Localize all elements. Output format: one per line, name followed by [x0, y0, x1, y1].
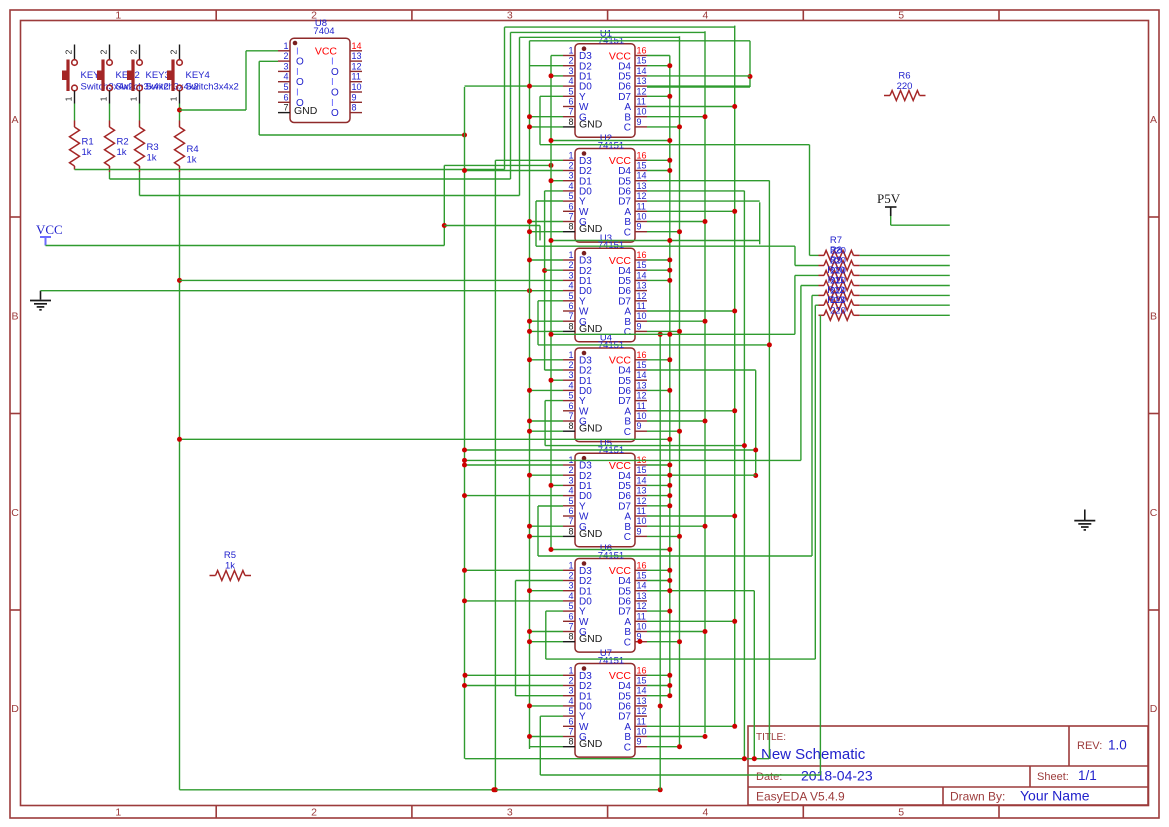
IC U5 pin 5 stub — [563, 505, 575, 507]
svg-text:R7: R7 — [830, 235, 842, 246]
junction U7 pin4 x529 — [527, 703, 532, 708]
wire U4 pin13 to VCC bus — [647, 389, 670, 391]
wire U3 pin14 to VCC bus — [647, 279, 670, 281]
wire U1 pin3 from bus x551 — [551, 75, 563, 77]
junction U1 pin8 x529 — [527, 124, 532, 129]
svg-text:8: 8 — [568, 117, 573, 127]
svg-text:9: 9 — [637, 222, 642, 232]
svg-text:11: 11 — [637, 301, 646, 311]
svg-text:TITLE:: TITLE: — [756, 732, 786, 743]
svg-text:7: 7 — [568, 516, 573, 526]
junction U5 pin13 VCC bus — [667, 493, 672, 498]
IC U7 74151 body — [575, 664, 635, 758]
junction U3 pin7 x529 — [527, 319, 532, 324]
wire U5 pin4 from bus x464 — [465, 495, 564, 497]
IC U7 pin 6 stub — [563, 725, 575, 727]
IC U8 pin 8 stub — [350, 112, 362, 114]
wire U6 pin15 to VCC bus — [647, 580, 670, 582]
svg-text:6: 6 — [568, 97, 573, 107]
junction U1 link x551 — [549, 138, 554, 143]
wire U1 pin1 from bus x551 — [551, 55, 563, 57]
svg-text:3: 3 — [568, 475, 573, 485]
ruler tick left A/B — [10, 216, 21, 218]
ruler tick top 4 — [802, 10, 804, 21]
svg-text:1k: 1k — [187, 155, 197, 166]
svg-text:13: 13 — [637, 486, 647, 496]
wire U5 under-chip link — [551, 549, 670, 551]
svg-text:12: 12 — [637, 706, 647, 716]
IC U5 pin 8 stub — [563, 535, 575, 537]
svg-text:R3: R3 — [147, 142, 159, 153]
junction U2 pin2 x464 — [462, 168, 467, 173]
resistor R10 body — [824, 281, 854, 291]
svg-text:7: 7 — [568, 411, 573, 421]
junction U6 pin15 VCC bus — [667, 578, 672, 583]
wire U2 D6 drop vertical x744 — [743, 191, 745, 759]
wire U3 Y vertical — [537, 301, 539, 345]
wire U6 pin2 from x515 — [516, 580, 564, 582]
svg-text:11: 11 — [637, 506, 646, 516]
switch KEY3 actuator button — [127, 71, 133, 81]
IC U5 pin 10 stub — [635, 525, 647, 527]
wire U6 pin14 to VCC bus — [647, 590, 670, 592]
svg-text:6: 6 — [568, 506, 573, 516]
resistor R6 body — [890, 91, 920, 101]
title block Sheet divider — [1029, 766, 1031, 787]
wire U7 Y vertical — [539, 716, 541, 775]
IC U3 pin 8 stub — [563, 330, 575, 332]
IC U8 7404 body — [290, 38, 350, 122]
IC U4 pin 4 stub — [563, 389, 575, 391]
svg-text:5: 5 — [898, 807, 904, 819]
junction U3 pin16 VCC bus — [667, 258, 672, 263]
svg-text:16: 16 — [637, 46, 647, 56]
svg-text:4: 4 — [568, 486, 573, 496]
IC U8 pin1 orientation dot — [293, 41, 298, 46]
wire KEY2 pin1 to R2 — [109, 104, 111, 121]
svg-text:Date:: Date: — [756, 771, 782, 783]
svg-text:15: 15 — [637, 676, 647, 686]
IC U4 pin 2 stub — [563, 369, 575, 371]
wire P5V to right — [891, 224, 950, 226]
wire U5 pin10 to net B — [647, 525, 705, 527]
IC U5 pin 12 stub — [635, 505, 647, 507]
wire U3 link to x795 — [551, 333, 795, 335]
title block row divider 2 — [748, 786, 1148, 788]
junction U3 pin15 VCC bus — [667, 268, 672, 273]
IC U6 pin 8 stub — [563, 641, 575, 643]
junction U7 pin13 at x660 — [658, 704, 663, 709]
wire U1 under-chip link — [551, 140, 670, 142]
svg-text:220: 220 — [830, 245, 846, 256]
svg-text:2: 2 — [568, 571, 573, 581]
junction U7 pin9 net C — [677, 744, 682, 749]
IC U6 pin 4 stub — [563, 600, 575, 602]
IC U8 pin 12 stub — [350, 70, 362, 72]
wire U5 Y horizontal — [538, 555, 812, 557]
svg-text:9: 9 — [637, 421, 642, 431]
wire U4 pin16 to VCC bus — [647, 359, 670, 361]
wire VCC flag to bus — [46, 245, 445, 247]
junction x756 branch 450 — [753, 448, 758, 453]
ruler tick bottom 3 — [607, 806, 609, 819]
svg-text:4: 4 — [568, 281, 573, 291]
wire U3 pin1 from ground bus — [530, 259, 564, 261]
svg-text:1: 1 — [568, 665, 573, 675]
wire U4 pin3 from bus x551 — [551, 379, 563, 381]
junction U7 pin14 VCC bus — [667, 693, 672, 698]
junction U6 pin11 net A — [732, 619, 737, 624]
resistor R8 left lead — [819, 265, 825, 267]
svg-text:9: 9 — [637, 737, 642, 747]
resistor R13 body — [824, 310, 854, 320]
svg-text:10: 10 — [637, 727, 647, 737]
switch KEY3 pin1 stub — [139, 91, 141, 104]
junction U4 pin4 x529 — [527, 388, 532, 393]
svg-text:6: 6 — [568, 716, 573, 726]
IC U6 pin 16 stub — [635, 569, 647, 571]
IC U7 pin 16 stub — [635, 674, 647, 676]
wire VCC top link horizontal — [444, 164, 551, 166]
ruler tick top 1 — [215, 10, 217, 21]
resistor R13 right lead — [854, 314, 860, 316]
ruler tick bottom 5 — [998, 806, 1000, 819]
svg-text:2: 2 — [568, 56, 573, 66]
IC U7 pin 5 stub — [563, 715, 575, 717]
svg-text:7: 7 — [568, 622, 573, 632]
svg-text:Drawn By:: Drawn By: — [950, 790, 1005, 804]
junction U7 pin10 net B — [703, 734, 708, 739]
wire U4 pin9 to net C — [647, 430, 680, 432]
wire U1 pin11 to net A — [647, 106, 735, 108]
svg-text:2: 2 — [311, 807, 317, 819]
IC U7 pin 13 stub — [635, 705, 647, 707]
svg-text:8: 8 — [568, 222, 573, 232]
resistor R11 left lead — [819, 294, 825, 296]
wire U6 Y horizontal — [546, 658, 816, 660]
svg-text:1k: 1k — [225, 561, 235, 572]
svg-text:13: 13 — [637, 696, 647, 706]
IC U2 pin1 orientation dot — [582, 151, 587, 156]
svg-text:11: 11 — [352, 72, 361, 82]
svg-text:74151: 74151 — [598, 141, 624, 152]
svg-text:1: 1 — [568, 350, 573, 360]
svg-text:2: 2 — [568, 360, 573, 370]
svg-text:6: 6 — [568, 301, 573, 311]
svg-text:12: 12 — [637, 291, 647, 301]
svg-text:GND: GND — [579, 423, 603, 435]
wire R11 input vertical x812 — [811, 295, 813, 556]
junction VCC P5V line — [442, 223, 447, 228]
svg-text:1: 1 — [568, 150, 573, 160]
wire U2 pin2 from bus x464 — [465, 170, 564, 172]
IC U1 74151 body — [575, 44, 635, 138]
IC U5 pin 16 stub — [635, 464, 647, 466]
ruler tick right B/C — [1149, 413, 1160, 415]
svg-text:8: 8 — [568, 737, 573, 747]
svg-text:Switch3x4x2: Switch3x4x2 — [186, 82, 239, 93]
svg-text:12: 12 — [637, 86, 647, 96]
wire U6 pin4 from bus x464 — [465, 600, 564, 602]
IC U3 pin 5 stub — [563, 300, 575, 302]
svg-text:R4: R4 — [187, 144, 199, 155]
svg-text:4: 4 — [568, 76, 573, 86]
wire U4 pin15 long to x756 — [647, 369, 756, 371]
wire R8 input — [795, 265, 819, 267]
junction U3 pin1 x529 — [527, 258, 532, 263]
IC U6 pin 12 stub — [635, 610, 647, 612]
resistor R7 right lead — [854, 254, 860, 256]
wire U6 pin12 to VCC bus — [647, 610, 670, 612]
resistor R3 bottom lead — [139, 166, 141, 172]
svg-text:KEY4: KEY4 — [186, 70, 210, 81]
wire U5 pin14 to VCC bus — [647, 484, 670, 486]
svg-text:220: 220 — [830, 305, 846, 316]
IC U8 pin 10 stub — [350, 91, 362, 93]
svg-text:GND: GND — [579, 738, 603, 750]
svg-text:1: 1 — [99, 96, 109, 101]
junction U3 pin14 VCC bus — [667, 278, 672, 283]
svg-text:14: 14 — [637, 171, 647, 181]
wire U6 pin3 from ground bus — [530, 590, 564, 592]
wire U5 pin15 long to x756 — [647, 474, 756, 476]
wire U4 under-chip link from key4 net — [180, 438, 670, 440]
svg-text:A: A — [1150, 114, 1157, 126]
svg-text:GND: GND — [579, 118, 603, 130]
IC U6 pin 7 stub — [563, 631, 575, 633]
IC U4 pin 11 stub — [635, 410, 647, 412]
junction U1 pin3 x551 — [549, 73, 554, 78]
switch KEY2 actuator button — [97, 71, 103, 81]
wire U2 pin11 to net A — [647, 210, 735, 212]
IC U8 pin 3 stub — [278, 70, 290, 72]
wire R13 input vertical x820 — [819, 315, 821, 775]
switch KEY2 actuator bar — [101, 60, 104, 92]
wire R10 input — [801, 285, 819, 287]
junction U5 link x551 — [549, 547, 554, 552]
wire U6 Y vertical — [545, 611, 547, 659]
wire net B vertical right — [704, 31, 706, 733]
wire net A top bus — [505, 26, 735, 28]
wire U6 pin10 to net B — [647, 631, 705, 633]
wire U7 pin8 from ground bus — [530, 746, 564, 748]
IC U1 pin 8 stub — [563, 126, 575, 128]
junction U4 pin13 VCC bus — [667, 388, 672, 393]
IC U8 pin 4 stub — [278, 81, 290, 83]
IC U7 pin 9 stub — [635, 746, 647, 748]
wire U3 pin16 to VCC bus — [647, 259, 670, 261]
IC U2 pin 13 stub — [635, 190, 647, 192]
wire U4 pin7 from ground bus — [530, 420, 564, 422]
svg-text:VCC: VCC — [36, 222, 63, 237]
junction U5 pin9 net C — [677, 534, 682, 539]
svg-text:REV:: REV: — [1077, 740, 1102, 752]
wire U5 Y vertical — [537, 506, 539, 556]
IC U1 pin 13 stub — [635, 85, 647, 87]
wire net B top bus — [511, 31, 706, 33]
switch KEY1 top contact — [72, 60, 78, 66]
junction x545 at U3 pin2 — [542, 268, 547, 273]
svg-text:1k: 1k — [82, 147, 92, 158]
svg-text:1: 1 — [129, 96, 139, 101]
junction U7 pin2 x464 — [462, 683, 467, 688]
ruler tick top 5 — [998, 10, 1000, 21]
switch KEY2 pin1 stub — [109, 91, 111, 104]
power flag P5V stem — [890, 207, 892, 216]
switch KEY1 actuator bar — [66, 60, 69, 92]
resistor R3 body — [135, 127, 145, 166]
IC U3 pin 7 stub — [563, 320, 575, 322]
svg-text:7: 7 — [568, 107, 573, 117]
switch KEY4 pin2 stub — [179, 45, 181, 60]
svg-text:14: 14 — [637, 370, 647, 380]
wire U4 pin1 from ground bus — [530, 359, 564, 361]
IC U4 pin 1 stub — [563, 359, 575, 361]
switch KEY4 actuator button — [167, 71, 173, 81]
wire R9 input — [795, 274, 819, 276]
svg-text:1: 1 — [568, 46, 573, 56]
switch KEY1 pin1 stub — [74, 91, 76, 104]
wire U1 Y horizontal — [540, 144, 810, 146]
svg-text:5: 5 — [568, 706, 573, 716]
wire R7 input — [810, 254, 819, 256]
wire x515 drop U6 pin2 to U7 pin3 — [515, 581, 517, 697]
IC U1 pin 7 stub — [563, 116, 575, 118]
wire U7 pin9 to net C — [647, 746, 680, 748]
junction U4 pin8 x529 — [527, 429, 532, 434]
svg-text:16: 16 — [637, 665, 647, 675]
wire U1 pin8 from ground bus — [530, 126, 564, 128]
junction U2 link x551 — [549, 238, 554, 243]
junction U5 pin10 net B — [703, 524, 708, 529]
IC U7 pin 12 stub — [635, 715, 647, 717]
IC U7 pin1 orientation dot — [582, 666, 587, 671]
power flag P5V bar — [885, 206, 897, 208]
svg-text:C: C — [624, 123, 631, 134]
IC U3 pin 6 stub — [563, 310, 575, 312]
svg-text:5: 5 — [568, 391, 573, 401]
wire U2 pin12 to x760 — [647, 200, 760, 202]
svg-text:5: 5 — [568, 86, 573, 96]
wire U7 pin11 to net A — [647, 725, 735, 727]
junction U1 pin7 x529 — [527, 114, 532, 119]
IC U3 pin 11 stub — [635, 310, 647, 312]
IC U6 pin 14 stub — [635, 590, 647, 592]
wire R9 input vertical x795b — [794, 275, 796, 334]
wire net D loop bottom — [647, 86, 750, 88]
junction U6 pin10 net B — [703, 629, 708, 634]
junction U3 pin8 x529 — [527, 329, 532, 334]
IC U4 74151 body — [575, 348, 635, 442]
junction x744 at bottom bus — [742, 756, 747, 761]
svg-text:3: 3 — [568, 370, 573, 380]
ground symbol left — [40, 291, 42, 300]
IC U3 pin 13 stub — [635, 290, 647, 292]
IC U1 pin 10 stub — [635, 116, 647, 118]
IC U2 pin 7 stub — [563, 221, 575, 223]
junction U5 pin16 VCC bus — [667, 463, 672, 468]
svg-text:5: 5 — [568, 191, 573, 201]
wire into U8 pin1 — [246, 50, 278, 52]
svg-text:1: 1 — [115, 10, 121, 22]
svg-text:B: B — [1150, 310, 1157, 322]
IC U8 pin 6 stub — [278, 101, 290, 103]
svg-text:14: 14 — [637, 581, 647, 591]
IC U2 pin 1 stub — [563, 159, 575, 161]
svg-text:2: 2 — [568, 260, 573, 270]
IC U7 pin 3 stub — [563, 695, 575, 697]
wire U5 pin12 to VCC bus — [647, 505, 670, 507]
IC U3 pin 12 stub — [635, 300, 647, 302]
wire U2 pin13 to x744 — [647, 190, 744, 192]
svg-text:2: 2 — [64, 49, 74, 54]
resistor R5 body — [216, 571, 246, 581]
wire U2 pin1 from bus x495 — [495, 159, 563, 161]
ruler tick top 3 — [607, 10, 609, 21]
resistor R8 body — [824, 261, 854, 271]
svg-text:2: 2 — [129, 49, 139, 54]
svg-text:3: 3 — [568, 270, 573, 280]
wire U4 Y vertical — [544, 401, 546, 446]
resistor R2 body — [105, 127, 115, 166]
wire R12 input vertical x815 — [814, 305, 816, 659]
wire U1 pin12 to VCC bus — [647, 95, 670, 97]
IC U5 pin 6 stub — [563, 515, 575, 517]
wire U5 pin13 to VCC bus — [647, 495, 670, 497]
junction U3 pin11 net A — [732, 309, 737, 314]
IC U7 pin 15 stub — [635, 685, 647, 687]
ground symbol right standalone — [1084, 510, 1086, 521]
junction U7 pin16 VCC bus — [667, 673, 672, 678]
IC U8 pin 14 stub — [350, 50, 362, 52]
svg-text:2: 2 — [568, 161, 573, 171]
IC U1 pin 12 stub — [635, 95, 647, 97]
svg-text:13: 13 — [637, 181, 647, 191]
svg-text:A: A — [11, 114, 18, 126]
wire U1 pin16 to VCC bus — [647, 55, 670, 57]
svg-text:R2: R2 — [117, 137, 129, 148]
wire U4 pin4 from ground bus — [530, 389, 564, 391]
wire bus vertical x444 VCC link — [443, 165, 445, 245]
wire U2 D7 loop vertical x760 — [759, 202, 761, 244]
wire x545 drop U2 pin4 to U4 pin2 — [544, 191, 546, 370]
svg-text:15: 15 — [637, 56, 647, 66]
IC U3 pin 14 stub — [635, 279, 647, 281]
svg-text:2: 2 — [169, 49, 179, 54]
wire U3 pin15 to VCC bus — [647, 269, 670, 271]
svg-text:4: 4 — [568, 696, 573, 706]
wire U1 Y vertical — [539, 96, 541, 144]
junction U4 pin3 x551 — [549, 378, 554, 383]
junction U6 pin14 VCC bus — [667, 588, 672, 593]
switch KEY2 pin2 stub — [109, 45, 111, 60]
IC U7 pin 1 stub — [563, 674, 575, 676]
svg-text:10: 10 — [637, 516, 647, 526]
svg-text:11: 11 — [637, 201, 646, 211]
svg-text:New Schematic: New Schematic — [761, 746, 866, 763]
ruler tick left C/D — [10, 609, 21, 611]
svg-text:10: 10 — [637, 411, 647, 421]
wire VCC P5V drop at x540 — [539, 226, 541, 241]
junction U2 pin11 net A — [732, 209, 737, 214]
IC U1 pin 1 stub — [563, 55, 575, 57]
junction U4 pin7 x529 — [527, 419, 532, 424]
svg-text:9: 9 — [637, 117, 642, 127]
svg-text:1: 1 — [169, 96, 179, 101]
IC U6 pin 3 stub — [563, 590, 575, 592]
wire U4 pin8 from ground bus — [530, 430, 564, 432]
junction x754 at bottom bus — [752, 756, 757, 761]
